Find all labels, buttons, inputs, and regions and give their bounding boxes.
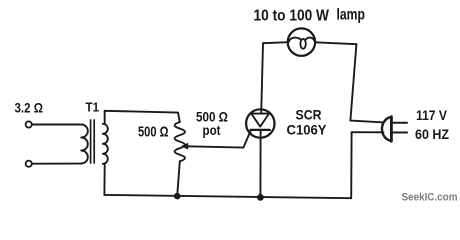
svg-text:SCR: SCR xyxy=(296,107,322,123)
wire: secondary top, across to pot top xyxy=(105,111,180,124)
lamp DS1 circle xyxy=(288,28,315,55)
label "500 Ω pot" xyxy=(196,109,228,138)
label "SCR C106Y" xyxy=(287,107,328,138)
SCR Q1 cathode bar xyxy=(251,129,270,131)
bottom bus wire xyxy=(104,195,351,198)
wire right vertical upper: top wire down to plug upper lead xyxy=(350,44,356,120)
transformer T1 primary winding xyxy=(81,125,88,164)
label "117 V" xyxy=(416,108,447,123)
label "500 Ω" (pot element value) xyxy=(138,123,169,140)
svg-text:lamp: lamp xyxy=(337,7,366,24)
label T1 xyxy=(86,100,100,115)
SCR Q1 C106Y circle xyxy=(246,109,274,137)
label "3.2 Ω" xyxy=(15,100,44,116)
wire top-left (lamp loop, SCR anode branch) xyxy=(263,42,288,43)
svg-text:60 HZ: 60 HZ xyxy=(415,127,449,142)
junction node B (SCR cathode) xyxy=(257,194,264,201)
transformer T1 core xyxy=(90,120,92,163)
svg-text:3.2 Ω: 3.2 Ω xyxy=(15,100,44,116)
svg-text:pot: pot xyxy=(203,122,221,138)
wire: lower input lead to primary xyxy=(32,163,81,165)
svg-text:117 V: 117 V xyxy=(416,108,447,123)
wire: upper input lead to primary xyxy=(32,124,81,126)
transformer T1 secondary winding xyxy=(103,124,108,164)
wire left vertical: lamp loop down to SCR anode xyxy=(261,43,263,113)
svg-text:10 to 100 W: 10 to 100 W xyxy=(254,8,330,25)
lamp DS1 filament xyxy=(289,38,302,43)
pot wiper arrowhead xyxy=(182,143,188,149)
svg-text:500 Ω: 500 Ω xyxy=(138,123,169,140)
svg-text:T1: T1 xyxy=(86,100,100,115)
wire: pot bottom down to bus xyxy=(177,161,180,196)
svg-text:SeekIC.com: SeekIC.com xyxy=(402,192,458,204)
junction node A (pot bottom) xyxy=(174,193,181,200)
wire lower plug lead xyxy=(352,131,384,133)
SCR Q1 triangle (anode-cathode) xyxy=(251,114,269,127)
label "10 to 100 W lamp" xyxy=(254,7,366,25)
wire top-right (lamp to AC line) xyxy=(315,42,356,44)
SCR Q1 cathode wire down to bus xyxy=(259,131,261,198)
wire: secondary bottom down to bus xyxy=(103,163,105,195)
input terminal lower xyxy=(26,161,32,167)
SCR Q1 gate wire xyxy=(187,130,251,147)
plug P1 prongs xyxy=(393,122,407,124)
wire right vertical lower: plug lower lead down to bottom bus xyxy=(350,132,352,198)
potentiometer R1 500 ohm element (wavy) xyxy=(175,122,185,161)
svg-text:C106Y: C106Y xyxy=(287,121,328,137)
plug P1 body xyxy=(382,117,391,141)
wire upper plug lead xyxy=(350,121,383,123)
label "60 HZ" xyxy=(415,127,449,142)
watermark SeekIC.com xyxy=(402,192,458,204)
input terminal upper xyxy=(26,121,32,127)
